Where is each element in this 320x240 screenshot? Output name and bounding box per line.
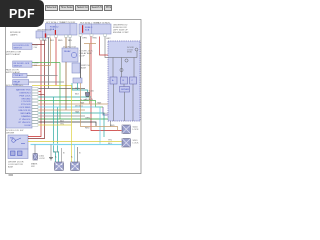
svg-text:LOCK: LOCK: [39, 158, 45, 160]
svg-text:SER DATA: SER DATA: [20, 112, 31, 115]
svg-text:G200: G200: [89, 91, 95, 93]
svg-text:DRIVER: DRIVER: [6, 132, 15, 134]
svg-text:MOD: MOD: [127, 52, 133, 54]
svg-text:G301: G301: [54, 152, 60, 154]
svg-text:LT DOOR: LT DOOR: [21, 101, 31, 103]
svg-text:ENGINE COMP: ENGINE COMP: [113, 32, 129, 34]
svg-text:2 A: 2 A: [34, 46, 38, 49]
svg-text:BLU: BLU: [104, 113, 109, 115]
svg-text:PWR ACC: PWR ACC: [14, 74, 24, 77]
svg-text:HOT IN RUN: HOT IN RUN: [97, 22, 110, 24]
svg-text:LT GRN: LT GRN: [85, 99, 93, 101]
svg-text:TAN: TAN: [97, 101, 102, 104]
svg-text:DK BLU: DK BLU: [75, 105, 83, 107]
svg-text:3 B: 3 B: [34, 65, 38, 67]
svg-text:IGNITION 3: IGNITION 3: [20, 92, 32, 94]
svg-text:UNLOCK FD: UNLOCK FD: [18, 110, 31, 112]
svg-text:RT UNLOCK: RT UNLOCK: [19, 122, 32, 124]
svg-text:GRY: GRY: [106, 38, 111, 40]
svg-text:RED: RED: [93, 38, 98, 40]
svg-text:BLK: BLK: [50, 40, 55, 42]
svg-text:RT DOOR: RT DOOR: [21, 104, 31, 106]
svg-text:LOCK FEED: LOCK FEED: [19, 107, 31, 109]
svg-text:ILLUM: ILLUM: [24, 125, 30, 127]
svg-text:RED: RED: [110, 125, 115, 127]
svg-text:BLK: BLK: [75, 94, 80, 96]
svg-text:HOT IN RUN: HOT IN RUN: [63, 22, 76, 24]
svg-text:GRN: GRN: [85, 117, 90, 119]
svg-text:SW: SW: [10, 138, 13, 140]
svg-text:YEL: YEL: [108, 139, 113, 141]
svg-text:LOCK: LOCK: [133, 143, 139, 145]
svg-text:BLU: BLU: [108, 143, 113, 145]
svg-text:RED: RED: [58, 40, 63, 42]
svg-text:RED: RED: [42, 40, 47, 42]
svg-text:LT UNLOCK: LT UNLOCK: [19, 119, 31, 121]
svg-text:SW: SW: [31, 166, 35, 168]
svg-text:ORN: ORN: [82, 38, 87, 40]
svg-text:BATTERY POS: BATTERY POS: [16, 88, 31, 91]
svg-text:DOOR LOCK: DOOR LOCK: [63, 46, 77, 48]
svg-text:TAN: TAN: [80, 101, 85, 104]
svg-text:SWITCH ASM: SWITCH ASM: [6, 71, 20, 74]
svg-text:ASM: ASM: [81, 66, 86, 69]
svg-text:COIL: COIL: [14, 84, 20, 86]
svg-text:LOCK: LOCK: [133, 129, 139, 131]
svg-text:IN I/P: IN I/P: [80, 56, 86, 58]
svg-text:A: A: [55, 156, 57, 159]
svg-text:PWR LOCK: PWR LOCK: [19, 95, 31, 97]
svg-text:RELAY: RELAY: [64, 50, 71, 53]
svg-text:RED: RED: [85, 127, 90, 129]
svg-text:DIMMING: DIMMING: [21, 116, 31, 118]
svg-text:TAN: TAN: [68, 39, 73, 42]
svg-text:B: B: [79, 153, 81, 155]
svg-text:SWITCH: SWITCH: [14, 47, 23, 49]
svg-text:SWITCH: SWITCH: [14, 65, 23, 67]
svg-text:BLK: BLK: [75, 88, 80, 90]
svg-text:BLK: BLK: [60, 120, 65, 122]
svg-text:30 A: 30 A: [85, 28, 90, 31]
svg-text:B: B: [63, 153, 65, 155]
svg-text:DRIVER: DRIVER: [121, 89, 129, 91]
svg-text:20 A: 20 A: [50, 28, 55, 31]
svg-text:A: A: [71, 156, 73, 159]
svg-text:LAMPS: LAMPS: [10, 34, 18, 37]
svg-text:TAN: TAN: [75, 110, 80, 113]
svg-text:SWITCH ASM: SWITCH ASM: [6, 53, 20, 56]
svg-text:ASM: ASM: [8, 166, 13, 169]
